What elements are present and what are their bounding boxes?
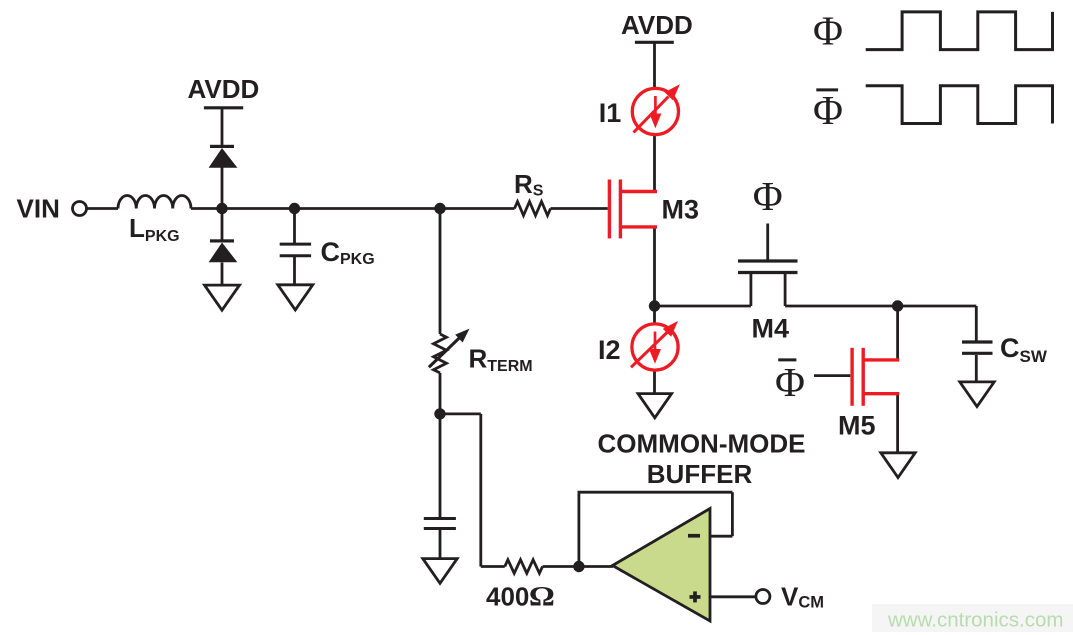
wire to 400ohm — [481, 565, 505, 568]
VCM terminal — [756, 590, 770, 604]
wire I1 to M3 drain — [653, 135, 656, 192]
current source I2 — [631, 321, 678, 370]
wire M4 gate — [766, 224, 769, 260]
wire node E to M5 drain — [896, 306, 899, 360]
node G dot — [573, 561, 584, 572]
AVDD supply bar right — [635, 41, 674, 44]
diode D2 — [209, 243, 238, 263]
wire rail to CSW top — [975, 306, 978, 341]
svg-text:AVDD: AVDD — [188, 74, 260, 104]
wire CSW to ground — [975, 355, 978, 382]
feedback wire top — [578, 491, 733, 494]
wire node D to M4 — [655, 305, 751, 308]
ground below I2 — [638, 394, 672, 418]
wire M5 gate — [814, 374, 850, 377]
svg-text:COMMON-MODE: COMMON-MODE — [598, 429, 806, 459]
node C dot — [434, 203, 445, 214]
wire RTERM to node F — [439, 373, 442, 414]
feedback wire to minus input — [710, 535, 732, 538]
resistor RTERM — [434, 334, 447, 373]
VIN terminal — [73, 202, 87, 216]
wire diode D2 to ground — [221, 263, 224, 286]
waveform phi — [866, 12, 1053, 50]
svg-text:M4: M4 — [752, 313, 790, 343]
capacitor CPKG — [280, 244, 311, 256]
svg-text:I1: I1 — [599, 98, 622, 128]
svg-text:I2: I2 — [598, 335, 621, 365]
transistor M4 — [738, 261, 798, 273]
wire I2 to ground — [653, 370, 656, 394]
diode D1 cathode bar — [210, 145, 234, 148]
svg-text:Φ: Φ — [813, 8, 843, 54]
svg-text:www.cntronics.com: www.cntronics.com — [887, 609, 1063, 632]
ground below CPKG — [278, 285, 313, 310]
wire node F right — [440, 412, 481, 415]
svg-text:AVDD: AVDD — [621, 10, 693, 40]
wire AVDD bar to I1 — [653, 42, 656, 88]
wire AVDD bar to diode D1 — [221, 108, 224, 147]
feedback wire down — [731, 492, 734, 536]
wire M4 to node E and CSW — [785, 305, 976, 308]
svg-text:M3: M3 — [662, 194, 700, 224]
arrow on RTERM — [429, 329, 470, 368]
node F dot — [434, 408, 445, 419]
op-amp minus — [688, 534, 700, 538]
diode D1 — [209, 148, 238, 168]
waveform phi-bar — [866, 86, 1053, 124]
wire main rail — [191, 207, 515, 210]
node A dot — [216, 203, 227, 214]
svg-text:Φ: Φ — [753, 173, 783, 219]
ground below diode D2 — [205, 285, 240, 310]
wire node B to CPKG — [293, 209, 296, 244]
svg-text:400Ω: 400Ω — [486, 581, 554, 612]
inductor LPKG — [118, 196, 191, 209]
ground below RTERM cap — [423, 559, 457, 584]
watermark background — [872, 604, 1073, 632]
wire node C down to RTERM — [439, 209, 442, 335]
wire cap to ground — [439, 530, 442, 559]
svg-text:Φ: Φ — [775, 359, 805, 405]
op-amp U1 — [613, 509, 711, 622]
diode D2 cathode bar — [210, 239, 234, 242]
wire node D to I2 — [653, 306, 656, 324]
wire 400ohm to opamp — [543, 565, 614, 568]
ground below M5 — [881, 453, 915, 478]
node E dot — [892, 300, 903, 311]
capacitor at RTERM node — [424, 519, 456, 529]
svg-text:BUFFER: BUFFER — [647, 459, 753, 489]
wire node F to cap — [439, 414, 442, 517]
transistor M5 — [852, 348, 899, 406]
svg-text:VIN: VIN — [17, 193, 60, 223]
svg-text:Φ: Φ — [813, 87, 843, 133]
overbar M5 phi — [778, 358, 796, 361]
svg-text:M5: M5 — [838, 410, 876, 440]
ground below CSW — [960, 382, 994, 407]
wire diode D1 to node A — [221, 167, 224, 209]
op-amp plus — [690, 591, 701, 602]
transistor M3 — [609, 180, 657, 239]
wire CPKG to ground — [293, 257, 296, 285]
current source I1 — [632, 84, 680, 134]
capacitor CSW — [962, 342, 993, 353]
wire RS to M3 gate — [551, 207, 608, 210]
wire down to 400ohm — [479, 414, 482, 567]
node B dot — [289, 203, 300, 214]
wire M5 source to ground — [896, 394, 899, 453]
wire node A to diode D2 — [221, 209, 224, 241]
wire VIN to inductor — [87, 207, 118, 210]
feedback wire up — [578, 492, 581, 566]
resistor 400ohm — [505, 560, 543, 574]
resistor RS — [515, 202, 551, 216]
output wire to VCM — [710, 595, 756, 598]
AVDD supply bar left — [204, 106, 243, 109]
wire M3 source to node D — [653, 227, 656, 306]
node D dot — [649, 300, 660, 311]
overbar clock phi — [816, 88, 838, 91]
